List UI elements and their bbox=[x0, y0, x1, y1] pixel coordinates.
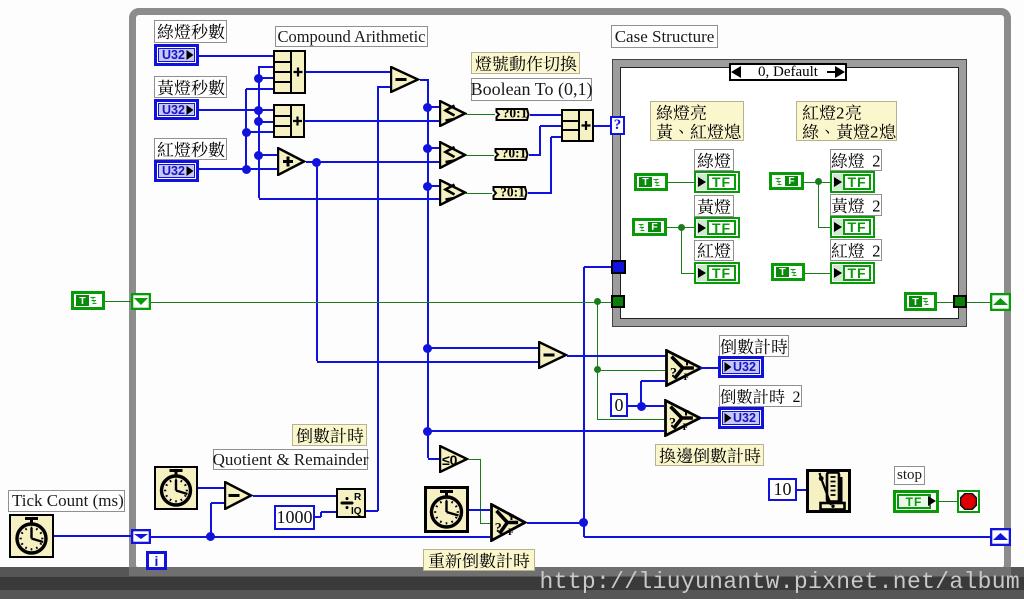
shift register left green bbox=[131, 293, 151, 310]
wire add output bbox=[306, 161, 439, 163]
boolean local variable 紅燈 TF bbox=[694, 262, 740, 284]
wire clock1 to left shift register bbox=[54, 535, 131, 537]
wire case tunnel to shift register bbox=[967, 302, 990, 303]
wire comparator2 to bool-to-01 bbox=[466, 155, 494, 156]
wire T to left shift register bbox=[105, 301, 131, 302]
svg-text:?: ? bbox=[669, 416, 676, 431]
label 倒數計時 (white) bbox=[719, 335, 789, 357]
numeric constant 1000 bbox=[274, 505, 315, 530]
case tunnel green out bbox=[953, 295, 967, 308]
tick count clock 2 (reset) bbox=[424, 486, 469, 533]
wire comparator1 to bool-to-01 bbox=[466, 114, 495, 115]
wire subtract2 to select1 bbox=[567, 355, 666, 357]
compound arithmetic node 3 (case selector sum) bbox=[561, 109, 594, 142]
select function 2 bbox=[664, 399, 702, 437]
stop boolean control bbox=[893, 490, 939, 513]
numeric constant 10 bbox=[768, 478, 797, 501]
label 綠燈 2 bbox=[830, 149, 882, 171]
wire U32 yellow seconds to compound node 2 bbox=[199, 109, 273, 111]
U32 indicator 倒數計時 bbox=[718, 356, 764, 378]
wire 10 to wait bbox=[797, 489, 806, 491]
label 紅燈 bbox=[694, 240, 734, 261]
wire U32 red seconds to add bbox=[199, 168, 277, 170]
loop border over label bbox=[129, 490, 136, 513]
svg-text:R: R bbox=[354, 492, 362, 503]
label Boolean To (0,1) bbox=[471, 78, 592, 101]
comment 綠燈亮 黃、紅燈熄 bbox=[650, 101, 744, 141]
wire yellow trunk bbox=[258, 66, 260, 198]
label 紅燈 2 bbox=[830, 239, 882, 261]
svg-text:IQ: IQ bbox=[351, 506, 362, 517]
label 綠燈 bbox=[694, 149, 734, 171]
U32 control 綠燈秒數 bbox=[154, 44, 199, 66]
boolean constant F (yellow red off) bbox=[632, 218, 667, 236]
boolean local variable 黃燈2 TF bbox=[830, 216, 875, 238]
label 倒數計時 (yellow) bbox=[292, 424, 367, 446]
label Compound Arithmetic bbox=[275, 26, 428, 47]
U32 control 紅燈秒數 bbox=[154, 160, 199, 182]
numeric constant 0 bbox=[610, 393, 628, 417]
wire red trunk bbox=[245, 89, 247, 169]
wire node1 to subtract bbox=[306, 71, 390, 73]
boolean constant F (green2 yellow2 off) bbox=[769, 172, 804, 190]
svg-text:2: 2 bbox=[872, 152, 880, 169]
case structure frame bbox=[612, 59, 967, 327]
label 黃燈 2 bbox=[830, 194, 882, 216]
case selector terminal ? bbox=[610, 116, 625, 135]
wire U32 green seconds to compound node 1 bbox=[199, 55, 273, 57]
compound arithmetic node 2 (3 inputs) bbox=[273, 104, 305, 138]
label 燈號動作切換 bbox=[471, 52, 580, 74]
wire F to 綠燈2 黃燈2 bbox=[804, 182, 830, 183]
boolean constant T (green on) bbox=[634, 173, 668, 191]
shift register left blue bbox=[131, 529, 151, 544]
wire clock2 to select3 bbox=[469, 509, 490, 511]
svg-text:?0:1: ?0:1 bbox=[502, 148, 527, 161]
wire compound3 to case selector bbox=[594, 125, 612, 127]
svg-text:F: F bbox=[508, 528, 514, 538]
add function bbox=[277, 147, 306, 176]
wire comparator3 to bool-to-01 bbox=[465, 193, 492, 194]
subtract function 3 bbox=[224, 481, 253, 510]
label 黃燈 bbox=[694, 195, 734, 217]
svg-text:?: ? bbox=[495, 521, 502, 536]
svg-text:≤0: ≤0 bbox=[442, 452, 458, 468]
wire ≤0 output bbox=[469, 459, 480, 460]
case tunnel green in (left) bbox=[611, 295, 625, 308]
wire select3 output bbox=[527, 522, 584, 524]
wait until next ms multiple bbox=[806, 469, 851, 513]
compound arithmetic node 1 (4 inputs) bbox=[273, 50, 306, 94]
svg-text:F: F bbox=[684, 373, 690, 383]
svg-text:2: 2 bbox=[870, 123, 878, 140]
shift register right blue bbox=[990, 528, 1011, 546]
wire main tick line bbox=[151, 536, 490, 538]
boolean local variable 黃燈 TF bbox=[694, 217, 740, 238]
wire select1 to indicator bbox=[700, 367, 718, 369]
U32 control 黃燈秒數 bbox=[154, 99, 199, 120]
wire bool01-3 to compound 3 bbox=[528, 192, 552, 194]
label 倒數計時 2 bbox=[719, 385, 802, 407]
comparator less-or-equal 3 bbox=[439, 179, 467, 206]
svg-text:?0:1: ?0:1 bbox=[500, 186, 525, 200]
svg-text:2: 2 bbox=[793, 389, 801, 405]
wire T to 紅燈2 bbox=[805, 273, 830, 274]
boolean to 0-1 node 1 bbox=[495, 108, 530, 121]
U32 indicator 倒數計時2 bbox=[718, 407, 764, 429]
subtract function bbox=[390, 66, 420, 93]
wire subtract3 to quotient-remainder bbox=[253, 495, 336, 497]
wire boolean main line bbox=[151, 302, 612, 303]
boolean constant T (red2 on) bbox=[771, 263, 805, 281]
svg-text:2: 2 bbox=[872, 242, 880, 259]
case selector label "0, Default" bbox=[729, 63, 847, 81]
label stop bbox=[894, 466, 925, 485]
comparator less-or-equal 1 bbox=[439, 100, 467, 127]
svg-text:?0:1: ?0:1 bbox=[503, 108, 528, 121]
boolean to 0-1 node 3 bbox=[492, 186, 528, 200]
wire node2 to comparator 1 bbox=[305, 120, 439, 122]
boolean local variable 紅燈2 TF bbox=[830, 262, 875, 284]
wire 0 constant branches bbox=[628, 405, 664, 407]
label 換邊倒數計時 bbox=[655, 444, 764, 466]
wire clock3 to subtract3 bbox=[198, 487, 224, 489]
label 紅燈秒數 bbox=[154, 138, 227, 160]
label 綠燈秒數 bbox=[154, 20, 227, 43]
svg-text:2: 2 bbox=[872, 197, 880, 214]
wire case blue tunnel from select3 trunk bbox=[584, 266, 612, 268]
comment 紅燈2亮 綠、黃燈2熄 bbox=[796, 101, 897, 141]
comparator less-or-equal 2 bbox=[439, 141, 467, 169]
wire countdown trunk (subtract output) bbox=[420, 79, 429, 81]
wire bool01-2 to compound 3 bbox=[529, 154, 541, 156]
case structure label bbox=[611, 25, 718, 48]
boolean to 0-1 node 2 bbox=[494, 148, 529, 161]
label Quotient & Remainder bbox=[213, 449, 368, 470]
boolean constant T (loop continue) bbox=[904, 292, 937, 311]
wire stop to loop condition bbox=[939, 501, 957, 502]
select function 1 bbox=[665, 349, 703, 387]
watermark bar bbox=[0, 567, 1024, 599]
wire F to 黃燈 紅燈 bbox=[667, 227, 694, 228]
boolean constant T (shift register init) bbox=[71, 291, 105, 310]
tick count clock (in loop) bbox=[154, 466, 198, 510]
label 重新倒數計時 bbox=[423, 549, 535, 571]
iteration terminal i bbox=[146, 551, 167, 570]
tick count clock (outside loop) bbox=[9, 514, 54, 558]
case tunnel blue in bbox=[611, 260, 626, 274]
wire bool01-1 to compound 3 bbox=[530, 114, 561, 116]
svg-text:2: 2 bbox=[836, 104, 844, 121]
boolean local variable 綠燈 TF bbox=[694, 171, 740, 193]
wire boolean branch to selects bbox=[597, 302, 598, 420]
comparator less-or-equal-0 bbox=[439, 445, 469, 473]
label Tick Count (ms) bbox=[8, 490, 125, 512]
wire T to 綠燈 bbox=[668, 182, 694, 183]
wire 1000 to quotient-remainder bbox=[315, 516, 321, 518]
wire select2 to indicator bbox=[701, 417, 718, 419]
shift register right green bbox=[990, 293, 1011, 311]
quotient and remainder node bbox=[336, 488, 366, 518]
watermark text http://liuyunantw.pixnet.net/album bbox=[0, 571, 1020, 593]
svg-text:F: F bbox=[683, 423, 689, 433]
svg-text:?: ? bbox=[670, 366, 677, 381]
wire quotient trunk to subtract bbox=[377, 86, 379, 511]
select function 3 bbox=[490, 503, 527, 542]
boolean local variable 綠燈2 TF bbox=[830, 171, 875, 193]
loop condition terminal (stop sign) bbox=[957, 490, 980, 513]
wire T to case tunnel bbox=[937, 302, 953, 303]
subtract function 2 bbox=[538, 341, 568, 369]
label 黃燈秒數 bbox=[154, 76, 227, 98]
